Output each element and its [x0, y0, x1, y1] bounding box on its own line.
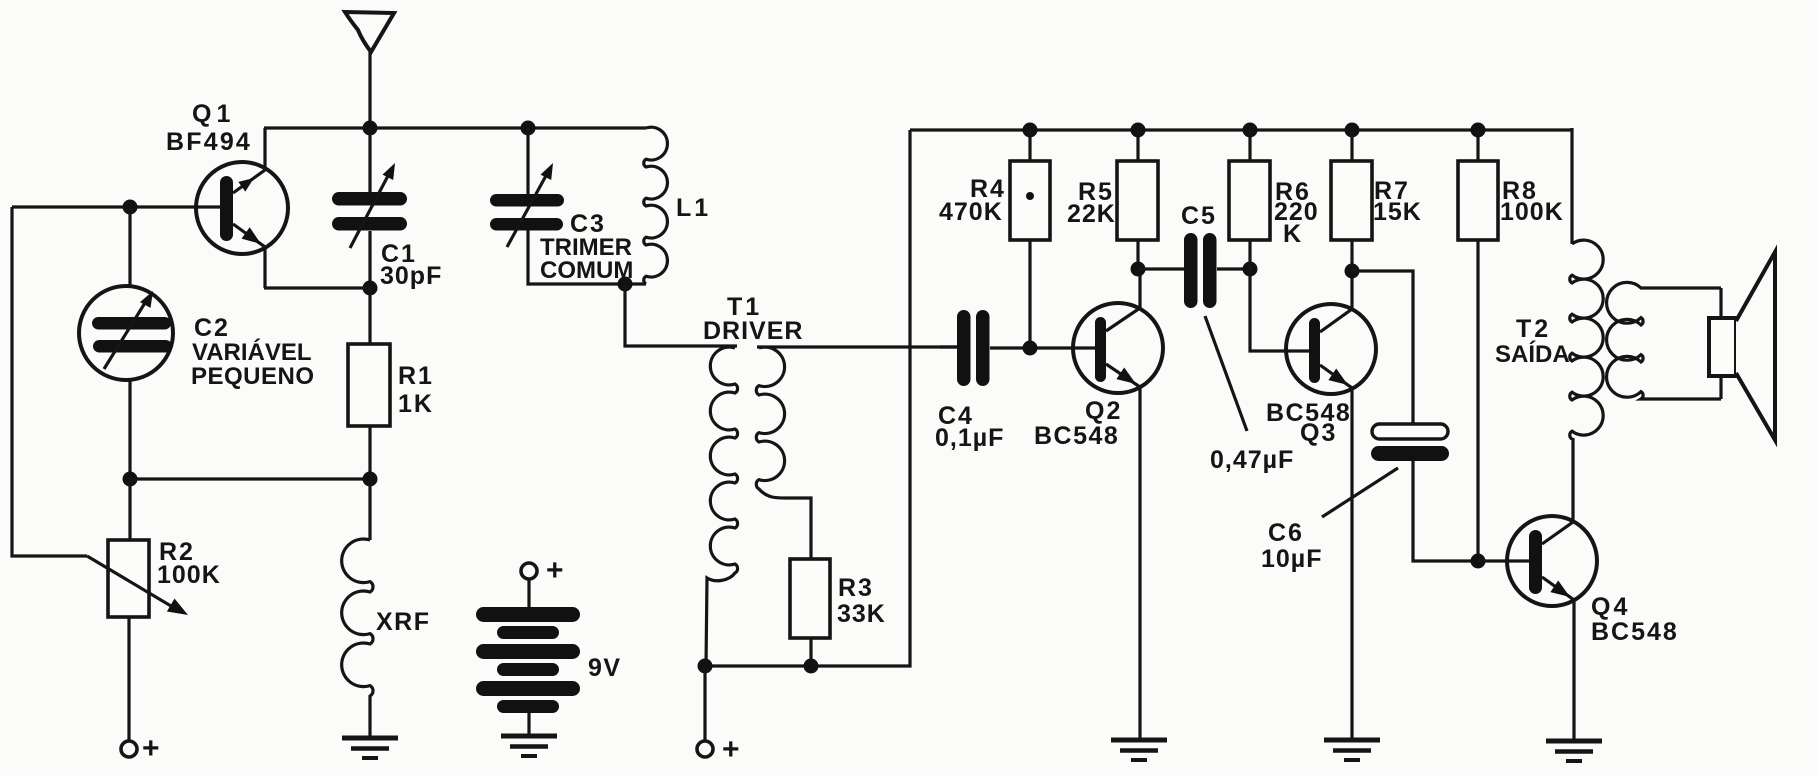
svg-text:BC548: BC548	[1591, 618, 1679, 646]
node T1 bottom junction	[698, 659, 713, 674]
transistor Q2 emitter	[1106, 364, 1140, 738]
svg-text:DRIVER: DRIVER	[703, 317, 803, 345]
svg-text:+: +	[142, 732, 160, 765]
svg-text:+: +	[546, 554, 564, 587]
terminal battery plus	[521, 563, 537, 579]
capacitor C4 plates	[957, 310, 971, 386]
resistor R1 body	[348, 344, 390, 426]
svg-text:BF494: BF494	[166, 128, 252, 156]
terminal plus bottom	[697, 741, 713, 757]
transistor Q3 outline	[1286, 304, 1376, 394]
capacitor C3 arrow	[507, 172, 548, 247]
svg-text:R3: R3	[838, 574, 874, 602]
wire antenna lead	[368, 52, 371, 128]
wire Q1 collector lead	[263, 128, 266, 172]
node C1-R1 junction	[363, 281, 378, 296]
wire speaker top	[1719, 288, 1722, 319]
svg-text:10µF: 10µF	[1261, 545, 1322, 573]
wire plus terminal lead	[703, 666, 706, 741]
speaker driver	[1709, 318, 1736, 376]
wire bottom rail	[705, 130, 910, 666]
ground under Q3	[1324, 738, 1380, 743]
wire top supply rail	[910, 128, 1572, 131]
svg-text:33K: 33K	[837, 600, 886, 628]
svg-text:100K: 100K	[157, 561, 221, 589]
svg-text:Q3: Q3	[1300, 419, 1337, 447]
wire R8 top lead	[1476, 130, 1479, 161]
potentiometer R2 wiper arrow	[87, 556, 176, 609]
capacitor C1 arrow	[350, 172, 390, 248]
node R5 top	[1131, 123, 1146, 138]
node R4 top	[1023, 123, 1038, 138]
transistor Q4 emitter	[1542, 577, 1574, 739]
wire mid horizontal	[130, 477, 370, 480]
wire R6 bottom lead	[1248, 240, 1251, 269]
node antenna junction	[363, 121, 378, 136]
wire top rail right corner	[1570, 128, 1573, 244]
transistor Q3 collector	[1320, 271, 1352, 332]
capacitor C2 plates	[92, 317, 171, 330]
transistor Q1 base bar	[220, 176, 233, 241]
svg-text:Q2: Q2	[1085, 397, 1122, 425]
wire R2 bottom lead	[127, 617, 130, 741]
wire C1 bottom lead	[368, 231, 371, 288]
wire battery top lead	[527, 579, 530, 608]
antenna	[345, 12, 394, 52]
svg-text:L1: L1	[676, 194, 711, 222]
wire R5 top lead	[1136, 130, 1139, 161]
wire R4 bottom lead	[1028, 240, 1031, 348]
node C3-L1 junction	[618, 277, 633, 292]
node Q4 base junction	[1471, 554, 1486, 569]
resistor R7 body	[1331, 161, 1372, 240]
wire battery bottom lead	[527, 713, 530, 736]
wire speaker bottom	[1719, 375, 1722, 399]
svg-text:PEQUENO: PEQUENO	[191, 363, 315, 390]
capacitor C6 bottom plate	[1371, 446, 1449, 461]
wire R4 top lead	[1028, 130, 1031, 161]
svg-text:R1: R1	[398, 362, 434, 390]
ground under XRF	[342, 736, 398, 741]
wire T1 secondary top	[757, 345, 957, 348]
wire R8 bottom lead	[1476, 240, 1479, 561]
svg-text:30pF: 30pF	[380, 262, 442, 290]
transistor Q3 emitter	[1320, 365, 1352, 738]
transistor Q1 outline	[196, 162, 288, 254]
wire R6 top lead	[1248, 130, 1251, 161]
svg-text:1K: 1K	[398, 390, 434, 418]
wire C6 bottom lead	[1413, 461, 1478, 561]
transistor Q4 base bar	[1529, 530, 1542, 594]
ground under Q4	[1546, 739, 1602, 744]
svg-text:0,47µF: 0,47µF	[1210, 446, 1294, 474]
svg-text:BC548: BC548	[1034, 422, 1119, 450]
svg-text:+: +	[722, 733, 740, 766]
svg-text:100K: 100K	[1500, 198, 1564, 226]
resistor R3 body	[790, 559, 830, 638]
svg-text:K: K	[1283, 220, 1302, 248]
transistor Q1 emitter	[233, 224, 265, 288]
resistor R8 body	[1458, 161, 1498, 240]
svg-text:22K: 22K	[1067, 200, 1116, 228]
transistor Q1 collector	[233, 170, 265, 193]
resistor R4 dot	[1026, 192, 1034, 200]
wire Q4 base lead	[1478, 559, 1529, 562]
svg-text:C6: C6	[1268, 519, 1304, 547]
transistor Q2 base bar	[1095, 317, 1106, 382]
node Q2 collector junction	[1131, 262, 1146, 277]
capacitor C3 plates	[490, 194, 564, 207]
inductor L1	[644, 127, 668, 284]
transformer T2 primary	[1570, 240, 1603, 439]
wire L1 junction to T1	[625, 284, 737, 346]
node C2-R2 junction	[123, 472, 138, 487]
capacitor C1 plates	[332, 192, 407, 206]
wire R1 bottom lead	[368, 426, 371, 480]
transistor Q4 collector	[1542, 438, 1573, 544]
leader 0,47uF	[1205, 316, 1247, 431]
node R6 top	[1243, 123, 1258, 138]
node R7 top	[1345, 123, 1360, 138]
svg-text:COMUM: COMUM	[540, 257, 633, 284]
wire Q1 emitter to C1	[264, 286, 370, 289]
inductor XRF	[342, 539, 373, 696]
node Q1 base junction	[123, 200, 138, 215]
wire R5 to C5	[1138, 267, 1184, 270]
leader C6	[1322, 468, 1398, 517]
wire Q1 base lead	[12, 205, 221, 208]
capacitor C2 arrow	[104, 298, 148, 369]
svg-text:470K: 470K	[939, 198, 1003, 226]
svg-text:9V: 9V	[588, 654, 622, 682]
wire C3 top lead	[526, 128, 529, 195]
transformer T1 secondary	[756, 347, 811, 559]
svg-text:XRF: XRF	[376, 608, 431, 636]
wire Q3 collector to C6	[1352, 271, 1413, 424]
potentiometer R2 body	[108, 540, 149, 617]
terminal minus left	[121, 741, 137, 757]
svg-text:SAÍDA: SAÍDA	[1495, 340, 1570, 368]
wire C4 to Q2	[990, 346, 1095, 349]
svg-text:T2: T2	[1516, 315, 1551, 343]
wire R7 top lead	[1350, 130, 1353, 161]
svg-text:0,1µF: 0,1µF	[935, 424, 1004, 452]
wire R3 bottom lead	[809, 638, 812, 666]
wire C3 bottom lead	[528, 230, 646, 284]
node R8 top	[1471, 123, 1486, 138]
node Q3 collector junction	[1345, 264, 1360, 279]
wire XRF bottom lead	[368, 695, 371, 738]
wire left rail	[12, 207, 87, 556]
wire R2 top lead	[128, 479, 131, 540]
battery 9V plates	[476, 607, 580, 622]
wire C5 junction to Q3 base	[1250, 269, 1309, 351]
node C3 junction	[521, 121, 536, 136]
resistor R5 body	[1117, 161, 1158, 240]
wire C5 to R6	[1217, 267, 1250, 270]
transistor Q4 outline	[1507, 516, 1597, 606]
transistor Q2 collector	[1106, 269, 1140, 331]
wire C2 top lead	[128, 207, 131, 287]
wire XRF top lead	[368, 479, 371, 540]
svg-text:Q1: Q1	[192, 100, 235, 128]
wire T1 to C4	[940, 345, 957, 348]
wire top-left rail	[264, 126, 646, 129]
transformer T2 secondary	[1607, 282, 1721, 399]
svg-text:15K: 15K	[1373, 198, 1422, 226]
wire R7 bottom lead	[1350, 240, 1353, 271]
node R6 bottom junction	[1243, 262, 1258, 277]
speaker cone	[1736, 252, 1775, 440]
capacitor C6 top plate	[1372, 424, 1448, 439]
node R1-XRF junction	[363, 472, 378, 487]
transistor Q3 base bar	[1309, 318, 1320, 383]
transistor Q2 outline	[1073, 303, 1163, 393]
svg-text:VARIÁVEL: VARIÁVEL	[192, 338, 312, 366]
svg-text:C2: C2	[194, 314, 230, 342]
resistor R6 body	[1229, 161, 1270, 240]
wire R5 bottom lead	[1136, 240, 1139, 269]
transformer T1 primary	[706, 347, 738, 666]
svg-text:Q4: Q4	[1591, 593, 1630, 621]
node R3 bottom junction	[804, 659, 819, 674]
ground under battery	[501, 734, 557, 739]
capacitor C5 plates	[1184, 233, 1198, 308]
svg-text:C5: C5	[1181, 202, 1217, 230]
capacitor C2 outline	[79, 286, 173, 380]
wire R1 top lead	[368, 288, 371, 344]
ground under Q2	[1111, 738, 1167, 743]
wire C1 top lead	[368, 128, 371, 192]
node R4-Q2 junction	[1023, 341, 1038, 356]
wire C2 bottom lead	[128, 379, 131, 479]
resistor R4 body	[1010, 161, 1050, 240]
